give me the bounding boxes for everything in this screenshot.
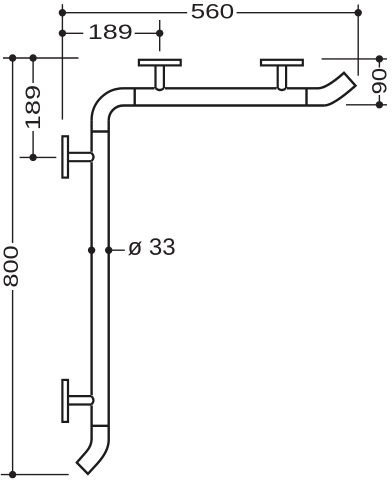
svg-text:189: 189: [22, 85, 45, 130]
extension line flange1 center: [159, 20, 161, 51]
horizontal tube bottom edge: [124, 104, 325, 106]
dimension 189 left line: [32, 58, 34, 157]
top flange 2: [261, 60, 303, 90]
extension line flange-left center: [20, 156, 57, 158]
svg-text:560: 560: [191, 1, 235, 24]
tube outline: corner + horizontal run + vertical run: [77, 73, 356, 474]
diameter 33 leader: [109, 249, 125, 251]
extension line bottom tip: [1, 474, 69, 476]
svg-text:ø 33: ø 33: [128, 234, 176, 261]
horizontal tube end curve (inner, cut, outer): [318, 73, 356, 106]
dimension 189 top line: [62, 32, 159, 34]
seam right end piece: [305, 88, 307, 105]
dimension 800 line: [12, 58, 14, 475]
dimension 90 dots: [376, 55, 383, 62]
left flange 2: [62, 380, 93, 422]
dimension 189 top dots: [59, 30, 66, 37]
dimension 90 right: bottom extension: [346, 104, 387, 106]
corner outer arc: [92, 88, 124, 120]
svg-text:90: 90: [369, 68, 392, 94]
dimension 560 dots: [59, 9, 66, 16]
extension line left wall plane: [61, 4, 63, 119]
seam corner horizontal piece: [133, 88, 135, 105]
left flange 1: [62, 136, 93, 177]
top flange 1: [139, 60, 181, 90]
seam bottom end piece: [92, 425, 109, 427]
svg-text:189: 189: [88, 21, 133, 44]
vertical tube left edge segments: [90, 120, 92, 439]
corner inner arc: [109, 106, 124, 121]
svg-text:800: 800: [0, 245, 23, 287]
diameter 33 dots: [88, 247, 95, 254]
extension line top wall plane: [3, 57, 79, 59]
seam corner vertical piece: [92, 130, 109, 132]
dimension 90 right: top extension: [322, 58, 387, 60]
dimension 560 line: [62, 12, 358, 14]
dimension 189 left dots: [29, 54, 36, 61]
vertical tube bottom end curve: [77, 120, 109, 474]
extension line 560 right (tube tip): [357, 5, 359, 76]
dimension 90 line: [378, 59, 380, 105]
dimension 800 dots: [9, 54, 16, 61]
horizontal tube top edge segments: [124, 87, 319, 89]
